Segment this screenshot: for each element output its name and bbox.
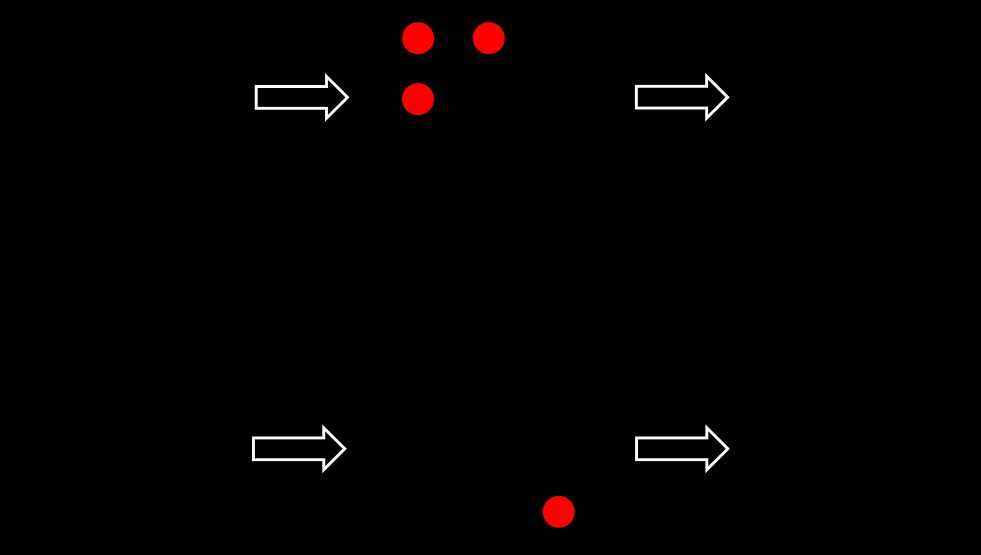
arrow top-left	[256, 77, 347, 119]
arrow bottom-right	[637, 428, 728, 470]
arrow bottom-left	[253, 428, 344, 470]
red particle lower of cluster	[402, 83, 434, 115]
red particle top-right of cluster	[473, 22, 505, 54]
red particle bottom	[543, 496, 575, 528]
red particle top-left of cluster	[402, 22, 434, 54]
arrow top-right	[636, 76, 727, 118]
